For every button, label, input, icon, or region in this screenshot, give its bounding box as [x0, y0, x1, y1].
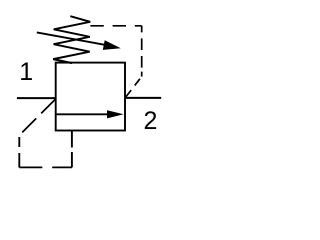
port 1 line	[17, 97, 56, 99]
flow path arrow (inside valve)	[56, 110, 124, 118]
drain / pilot line (dashed, valve bottom to port 1)	[19, 99, 72, 167]
spring (adjustable)	[53, 16, 90, 63]
valve body V1 (square)	[56, 63, 125, 131]
port 2 line	[125, 97, 161, 99]
svg-text:1: 1	[19, 58, 33, 86]
svg-text:2: 2	[143, 107, 157, 135]
adjustment arrow (through spring)	[37, 32, 121, 50]
pilot line (dashed, spring side to port 2)	[90, 26, 141, 98]
